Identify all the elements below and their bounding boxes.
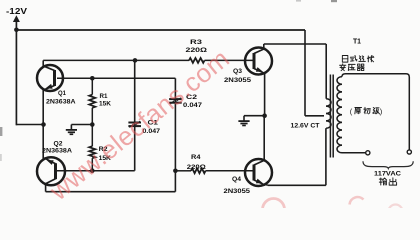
svg-text:2N3055: 2N3055 [224,77,251,84]
svg-text:Q2: Q2 [54,140,63,147]
svg-text:15K: 15K [99,100,111,107]
svg-text:Q3: Q3 [233,68,242,75]
svg-text:2N3638A: 2N3638A [42,147,72,154]
svg-text:Q4: Q4 [232,176,241,183]
svg-text:-12V: -12V [6,6,27,16]
svg-text:117VAC: 117VAC [374,170,401,177]
svg-text:220Ω: 220Ω [187,164,207,171]
svg-text:12.6V CT: 12.6V CT [291,123,321,130]
svg-text:Q1: Q1 [58,90,66,97]
svg-text:2N3055: 2N3055 [224,188,251,195]
svg-text:2N3638A: 2N3638A [46,98,76,105]
svg-text:R1: R1 [100,93,108,100]
svg-text:R3: R3 [190,39,202,46]
svg-text:T1: T1 [353,38,361,45]
svg-text:R4: R4 [191,154,201,161]
